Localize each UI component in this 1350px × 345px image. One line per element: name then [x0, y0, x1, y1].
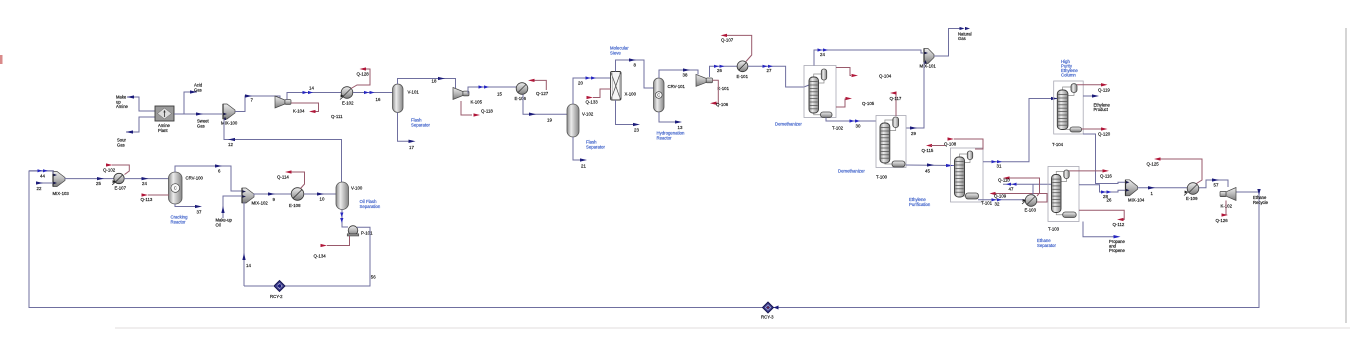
svg-text:22: 22 [37, 186, 42, 191]
svg-text:45: 45 [925, 169, 930, 174]
svg-text:Reactor: Reactor [657, 136, 673, 141]
svg-text:10: 10 [320, 197, 325, 202]
svg-text:Q-115: Q-115 [922, 148, 934, 153]
svg-text:E-109: E-109 [1186, 196, 1198, 201]
svg-text:RCY-3: RCY-3 [761, 315, 774, 320]
svg-text:15: 15 [497, 92, 502, 97]
svg-text:23: 23 [634, 128, 639, 133]
svg-text:32: 32 [995, 202, 1000, 207]
svg-text:19: 19 [547, 117, 552, 122]
svg-text:24: 24 [820, 52, 825, 57]
svg-text:21: 21 [581, 164, 586, 169]
svg-text:MIX-102: MIX-102 [252, 201, 269, 206]
svg-text:Q-104: Q-104 [879, 74, 892, 79]
svg-text:Product: Product [1094, 107, 1109, 112]
svg-text:Gas: Gas [117, 142, 125, 147]
svg-text:Q-107: Q-107 [721, 38, 734, 43]
svg-text:14: 14 [246, 263, 251, 268]
svg-text:K-101: K-101 [718, 86, 730, 91]
svg-text:Sieve: Sieve [610, 51, 621, 56]
svg-text:Q-118: Q-118 [481, 108, 493, 113]
svg-text:Demethanizer: Demethanizer [775, 122, 802, 127]
svg-text:V-101: V-101 [408, 90, 420, 95]
svg-text:Plant: Plant [158, 128, 168, 133]
svg-text:20: 20 [578, 81, 583, 86]
svg-text:25: 25 [96, 181, 101, 186]
svg-text:E-108: E-108 [289, 203, 301, 208]
svg-text:Amine: Amine [116, 104, 129, 109]
svg-text:Demethanizer: Demethanizer [838, 169, 865, 174]
svg-text:31: 31 [997, 164, 1002, 169]
svg-text:27: 27 [767, 68, 772, 73]
svg-text:E-103: E-103 [1025, 208, 1037, 213]
svg-text:CRV-101: CRV-101 [668, 84, 686, 89]
svg-text:Recycle: Recycle [1253, 200, 1269, 205]
svg-text:T-104: T-104 [1052, 142, 1064, 147]
svg-text:C: C [174, 186, 177, 191]
svg-text:30: 30 [856, 124, 861, 129]
svg-text:Q-112: Q-112 [1113, 222, 1125, 227]
svg-text:26: 26 [717, 68, 722, 73]
svg-text:Q-119: Q-119 [1098, 88, 1110, 93]
svg-text:14: 14 [309, 86, 314, 91]
svg-text:47: 47 [1009, 187, 1014, 192]
svg-text:44: 44 [40, 173, 45, 178]
svg-text:Separator: Separator [411, 123, 430, 128]
svg-text:E-102: E-102 [342, 101, 354, 106]
svg-text:P-101: P-101 [361, 231, 373, 236]
svg-text:18: 18 [432, 79, 437, 84]
svg-text:X-100: X-100 [625, 92, 637, 97]
svg-text:V-100: V-100 [351, 186, 363, 191]
svg-text:T-100: T-100 [876, 175, 888, 180]
svg-text:Oil: Oil [216, 222, 221, 227]
svg-text:24: 24 [142, 181, 147, 186]
svg-text:K-104: K-104 [293, 109, 305, 114]
svg-text:Purification: Purification [909, 202, 931, 207]
svg-text:E-107: E-107 [115, 186, 127, 191]
svg-text:Q-114: Q-114 [277, 175, 289, 180]
svg-text:Gas: Gas [197, 123, 205, 128]
svg-text:Q-116: Q-116 [1100, 173, 1112, 178]
svg-text:Q-128: Q-128 [357, 72, 370, 77]
svg-text:Q-117: Q-117 [890, 96, 902, 101]
svg-text:Q-102: Q-102 [103, 167, 116, 172]
svg-text:Q-134: Q-134 [314, 254, 327, 259]
svg-text:Q-120: Q-120 [1098, 131, 1111, 136]
svg-text:Q-105: Q-105 [862, 101, 875, 106]
svg-text:Q-108: Q-108 [944, 142, 957, 147]
svg-text:MIX-103: MIX-103 [53, 191, 70, 196]
svg-text:Q-111: Q-111 [331, 114, 343, 119]
svg-text:MIX-101: MIX-101 [920, 64, 937, 69]
svg-text:V-102: V-102 [582, 112, 594, 117]
svg-text:Propene: Propene [1109, 248, 1126, 253]
svg-text:RCY-2: RCY-2 [270, 294, 283, 299]
svg-text:C: C [657, 93, 660, 98]
svg-text:Q-125: Q-125 [1147, 162, 1160, 167]
svg-text:Q-113: Q-113 [141, 197, 153, 202]
svg-text:12: 12 [228, 142, 233, 147]
svg-text:Separator: Separator [1037, 243, 1056, 248]
svg-text:T-101: T-101 [981, 201, 993, 206]
svg-text:T-102: T-102 [832, 126, 844, 131]
svg-text:Separator: Separator [586, 145, 605, 150]
svg-text:CRV-100: CRV-100 [186, 176, 204, 181]
svg-text:Q-110: Q-110 [998, 178, 1010, 183]
svg-text:29: 29 [911, 131, 916, 136]
svg-text:Q-126: Q-126 [1216, 218, 1229, 223]
svg-text:Q-109: Q-109 [994, 194, 1007, 199]
svg-text:Column: Column [1061, 73, 1076, 78]
svg-text:56: 56 [371, 275, 376, 280]
svg-text:Q-133: Q-133 [586, 99, 599, 104]
svg-text:E-101: E-101 [737, 74, 749, 79]
svg-text:K-102: K-102 [1221, 204, 1233, 209]
svg-text:17: 17 [409, 145, 414, 150]
svg-text:Q-106: Q-106 [716, 102, 729, 107]
svg-text:K-105: K-105 [471, 100, 483, 105]
svg-text:37: 37 [197, 210, 202, 215]
svg-text:Q-127: Q-127 [536, 91, 549, 96]
svg-text:Gas: Gas [958, 36, 966, 41]
svg-text:Separation: Separation [360, 204, 381, 209]
svg-text:T-103: T-103 [1048, 227, 1060, 232]
svg-text:Gas: Gas [194, 87, 202, 92]
svg-text:E-106: E-106 [515, 96, 527, 101]
svg-text:MIX-104: MIX-104 [1128, 198, 1145, 203]
svg-text:57: 57 [1214, 183, 1219, 188]
svg-text:26: 26 [1107, 198, 1112, 203]
svg-text:Reactor: Reactor [171, 220, 187, 225]
svg-text:38: 38 [683, 73, 688, 78]
svg-text:13: 13 [678, 125, 683, 130]
svg-text:16: 16 [376, 97, 381, 102]
